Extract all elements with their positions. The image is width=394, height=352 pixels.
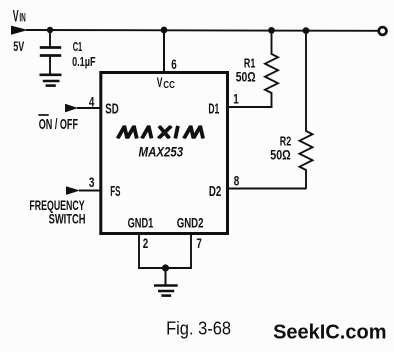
svg-text:SD: SD [105,101,118,117]
svg-text:IN: IN [19,11,25,25]
svg-text:5V: 5V [13,38,24,54]
input arrow FS [66,186,80,195]
wire pin 8 [227,188,307,190]
wire pin 2 [138,234,140,268]
svg-text:6: 6 [171,56,177,72]
svg-text:D2: D2 [209,184,221,200]
wire pin 3 [79,190,101,192]
svg-text:GND2: GND2 [177,215,204,230]
svg-text:CC: CC [163,80,175,91]
svg-text:C1: C1 [73,39,83,54]
svg-text:Fig. 3-68: Fig. 3-68 [166,318,231,338]
wire pin 6 [163,30,165,73]
junction dot ground [162,264,169,271]
output terminal [379,27,387,35]
svg-text:7: 7 [196,235,202,251]
svg-text:MAX253: MAX253 [139,143,184,159]
wire ground bus [138,267,192,269]
input arrow VIN [11,26,28,35]
junction dot R2 [303,27,310,34]
svg-text:D1: D1 [208,101,219,117]
svg-text:V: V [157,75,163,90]
resistor R1 [265,30,278,107]
svg-text:2: 2 [143,235,149,251]
ground (C1) [40,74,62,77]
resistor R2 [300,30,313,189]
svg-text:1: 1 [233,91,239,106]
svg-text:50Ω: 50Ω [270,148,290,163]
svg-text:R2: R2 [280,135,291,149]
svg-text:0.1µF: 0.1µF [72,54,95,69]
junction dot C1 [47,27,53,33]
svg-text:GND1: GND1 [128,215,154,230]
svg-text:SeekIC.com: SeekIC.com [273,322,386,344]
wire main top rail [26,29,379,32]
svg-text:50Ω: 50Ω [236,69,256,84]
junction dot R1 [268,27,275,34]
ground [165,268,167,285]
svg-text:4: 4 [89,94,95,109]
wire pin 4 [77,107,101,109]
svg-text:ON / OFF: ON / OFF [39,117,78,133]
svg-text:8: 8 [234,173,240,188]
input arrow SD [65,104,78,113]
IC U1 MAX253 [101,73,228,234]
wire pin 7 [190,234,192,268]
svg-text:V: V [13,6,19,25]
junction dot pin6 [161,27,168,34]
wire pin 1 [227,106,273,108]
svg-text:3: 3 [89,175,95,190]
svg-text:SWITCH: SWITCH [49,212,86,227]
svg-text:FS: FS [110,184,120,200]
capacitor C1 [49,30,51,48]
overline ON [38,114,48,116]
